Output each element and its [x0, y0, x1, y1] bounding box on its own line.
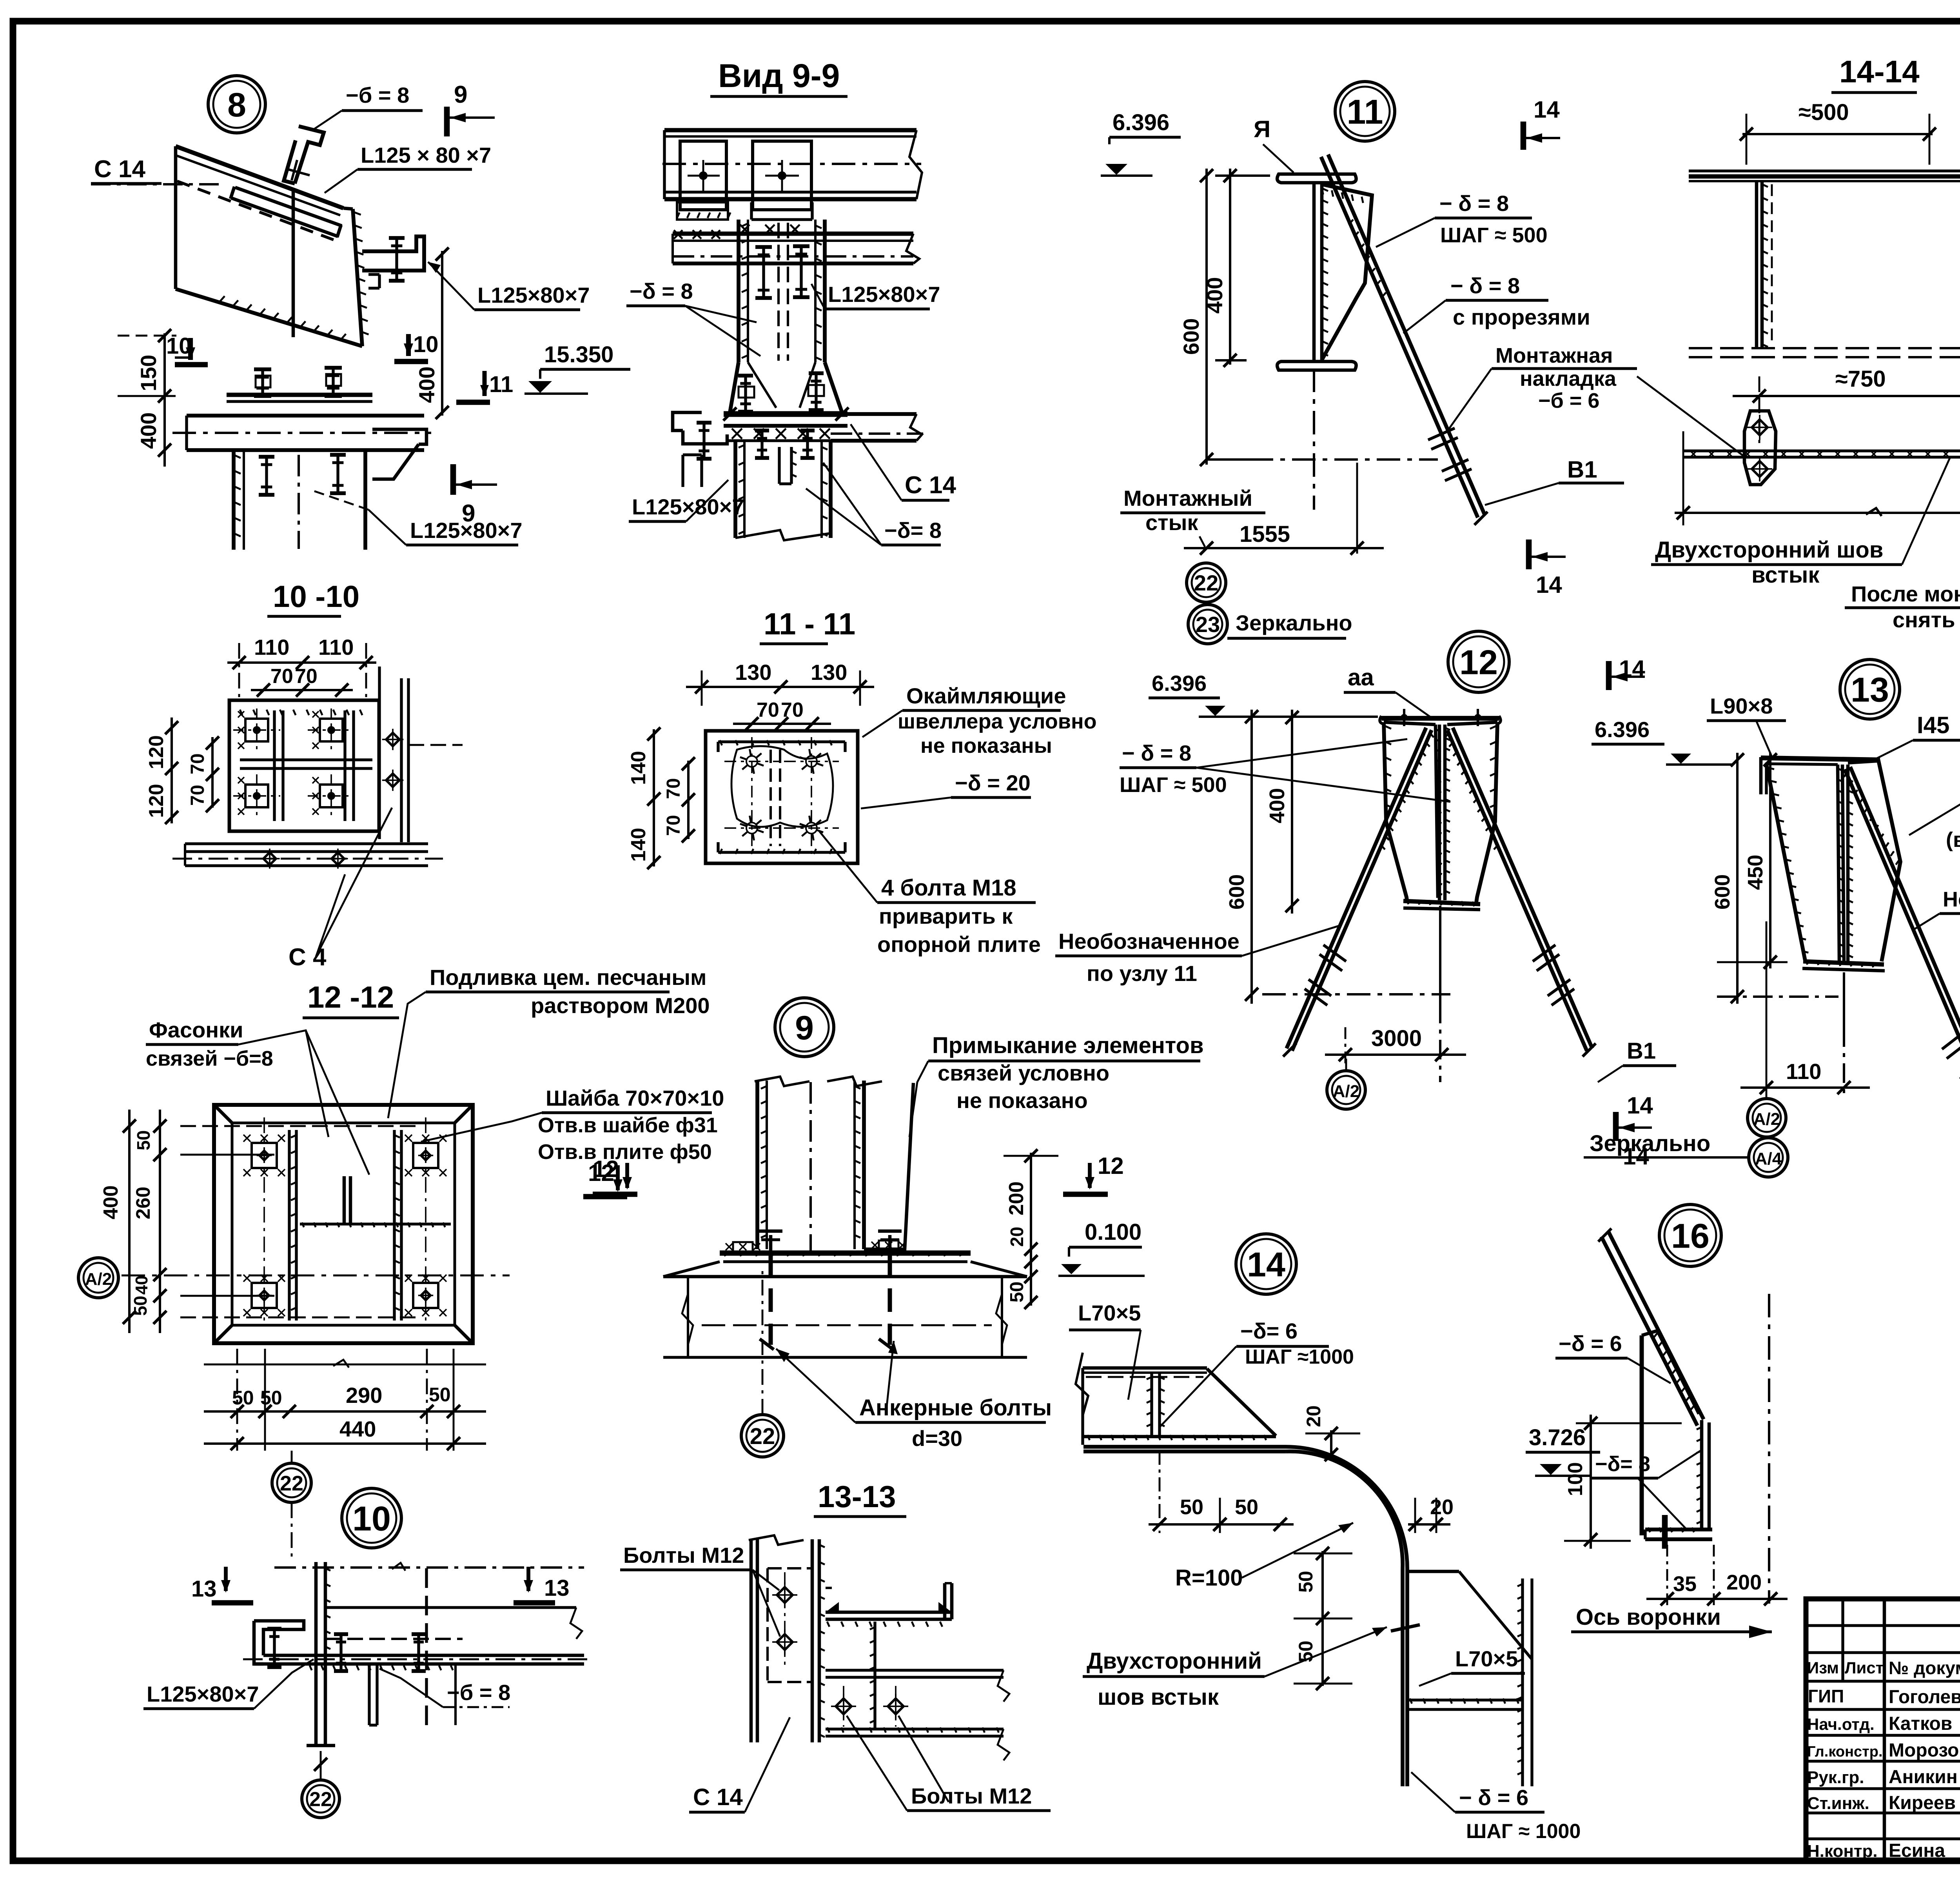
node 8 roof beam top edge [176, 146, 343, 208]
node 16 bottom flange [1645, 1528, 1712, 1531]
svg-text:20: 20 [1303, 1405, 1325, 1427]
svg-text:70: 70 [663, 778, 684, 799]
svg-text:А/2: А/2 [1753, 1110, 1780, 1129]
node 13 axis bubbles A2 A4 [1748, 1099, 1786, 1137]
section 14-14 stiffeners [1755, 181, 1759, 348]
svg-text:450: 450 [1744, 855, 1767, 890]
node 8 lower right bracket [372, 429, 426, 444]
svg-text:14: 14 [1247, 1245, 1285, 1284]
svg-text:В1: В1 [1627, 1038, 1656, 1064]
node 13 left dims 450 600 [1736, 753, 1739, 1004]
svg-text:−б = 8: −б = 8 [447, 1680, 510, 1705]
node 12 right brace [1447, 730, 1587, 1051]
view 9-9 lower column [733, 441, 737, 538]
node 9 grout and foundation top [663, 1262, 720, 1277]
svg-text:150: 150 [136, 355, 161, 391]
svg-text:600: 600 [1711, 874, 1734, 910]
svg-text:120: 120 [145, 784, 168, 818]
svg-text:100: 100 [1564, 1462, 1587, 1496]
section 13-13 dashed box and bolts [766, 1568, 769, 1682]
svg-text:50: 50 [1295, 1571, 1317, 1593]
svg-text:600: 600 [1225, 874, 1249, 910]
svg-text:6.396: 6.396 [1152, 671, 1207, 696]
svg-text:3000: 3000 [1371, 1026, 1422, 1051]
svg-text:Вид 9-9: Вид 9-9 [718, 57, 840, 94]
section 14-14 top chord [1689, 169, 1960, 172]
svg-text:14: 14 [1536, 572, 1562, 598]
svg-text:70: 70 [295, 665, 318, 688]
node 16 right edge vertical [1700, 1420, 1704, 1529]
node 12 section mark 14 bottom [1613, 1112, 1619, 1141]
view 9-9 base plate [724, 411, 848, 417]
svg-text:11 - 11: 11 - 11 [764, 607, 855, 641]
svg-text:− δ = 8: − δ = 8 [1122, 741, 1191, 765]
svg-text:10: 10 [352, 1499, 391, 1538]
svg-text:−δ= 6: −δ= 6 [1240, 1319, 1298, 1343]
svg-text:Гл.констр.: Гл.констр. [1807, 1744, 1883, 1760]
svg-text:по узлу 11: по узлу 11 [1087, 961, 1197, 986]
svg-text:опорной плите: опорной плите [877, 932, 1041, 957]
node 11 section mark 14 bottom [1526, 539, 1532, 569]
section 12-12 inner channels [288, 1130, 290, 1321]
section 10-10 plate [229, 700, 379, 831]
node 8 section mark 10 right [406, 334, 411, 356]
svg-text:35: 35 [1673, 1572, 1697, 1596]
svg-text:50: 50 [133, 1130, 154, 1150]
node 11 I-beam web and bottom flange [1312, 183, 1316, 361]
node 16 bubble [1659, 1204, 1721, 1266]
svg-text:L70×5: L70×5 [1455, 1646, 1518, 1671]
svg-text:Ось воронки: Ось воронки [1576, 1604, 1721, 1630]
title block outer frame [1806, 1599, 1960, 1862]
svg-text:70: 70 [663, 815, 684, 836]
svg-text:70: 70 [270, 665, 293, 688]
view 9-9 base taper [730, 362, 739, 412]
section 11-11 left dims 140 70 70 140 [653, 729, 655, 866]
section 11-11 plate [706, 731, 858, 863]
node 10 vertical post [314, 1562, 318, 1746]
svg-text:70: 70 [757, 699, 779, 721]
section 10-10 right channel [378, 667, 381, 839]
node 14 bend arc [1286, 1447, 1407, 1568]
section 13-13 right beam mid [826, 1669, 1004, 1671]
svg-text:накладка: накладка [1520, 367, 1617, 391]
svg-text:400: 400 [1265, 788, 1289, 823]
svg-text:110: 110 [1786, 1059, 1821, 1084]
svg-text:L70×5: L70×5 [1078, 1301, 1141, 1325]
node 14 sloped cut [1207, 1369, 1276, 1436]
node 13 diagonal brace [1845, 769, 1960, 1125]
svg-text:12 -12: 12 -12 [307, 980, 394, 1014]
svg-text:Есина: Есина [1889, 1840, 1945, 1861]
section 13-13 mid web [873, 1622, 876, 1729]
svg-text:14: 14 [1534, 96, 1560, 123]
node 8 right channel C14 bracket [362, 236, 424, 271]
svg-text:200: 200 [1726, 1571, 1762, 1594]
node 12 funnel left plate [1384, 722, 1407, 903]
svg-text:−δ = 6: −δ = 6 [1559, 1331, 1622, 1356]
section 13-13 right beam top [826, 1587, 832, 1589]
svg-text:10 -10: 10 -10 [273, 579, 359, 614]
svg-text:Монтажный: Монтажный [1123, 486, 1252, 510]
svg-text:Шайба 70×70×10: Шайба 70×70×10 [546, 1086, 724, 1110]
view 9-9 anchor bolts at base [744, 376, 747, 412]
svg-text:70: 70 [187, 785, 208, 806]
svg-text:110: 110 [254, 635, 289, 659]
view 9-9 top beam [664, 128, 916, 133]
svg-text:130: 130 [735, 660, 771, 685]
view 9-9 stub plates under [778, 447, 780, 484]
svg-text:Окаймляющие: Окаймляющие [906, 683, 1066, 708]
node 10 ref bubble 22 top [272, 1463, 311, 1502]
svg-text:Примыкание элементов: Примыкание элементов [932, 1033, 1204, 1058]
svg-text:11: 11 [1347, 93, 1383, 131]
section 13-13 left channel [750, 1539, 753, 1742]
node 11 diagonal brace B1 [1321, 157, 1478, 518]
section 14-14 bottom dashed chords [1689, 347, 1960, 349]
svg-text:аа: аа [1348, 664, 1374, 690]
svg-text:связей −б=8: связей −б=8 [146, 1047, 273, 1070]
svg-text:Болты М12: Болты М12 [911, 1784, 1032, 1808]
svg-text:L125×80×7: L125×80×7 [477, 283, 590, 307]
node 8 web panel [174, 146, 178, 289]
node 8 angle on slope [235, 187, 342, 226]
node 16 diagonal member [1609, 1232, 1704, 1419]
node 11 slotted plate [1322, 184, 1372, 360]
node 9 base plate [720, 1250, 971, 1255]
node 10 horizontal beam [263, 1654, 584, 1657]
svg-text:Двухсторонний шов: Двухсторонний шов [1655, 537, 1883, 563]
svg-text:−б = 6: −б = 6 [1538, 389, 1599, 412]
section 13-13 bolts lower [836, 1698, 851, 1714]
svg-text:− δ = 8: − δ = 8 [1450, 273, 1520, 298]
svg-text:После монтажа: После монтажа [1851, 581, 1960, 606]
node 9 column [755, 1081, 759, 1249]
svg-text:L125 × 80 ×7: L125 × 80 ×7 [361, 143, 491, 167]
svg-text:23: 23 [1196, 612, 1220, 637]
node 10 bubble [342, 1488, 401, 1548]
svg-text:Подливка цем. песчаным: Подливка цем. песчаным [430, 965, 706, 990]
view 9-9 right beam lower [831, 412, 916, 416]
svg-text:− δ = 6: − δ = 6 [1459, 1785, 1528, 1810]
svg-text:швеллера условно: швеллера условно [898, 710, 1097, 733]
svg-text:8: 8 [227, 86, 246, 124]
svg-text:Изм: Изм [1807, 1658, 1839, 1677]
svg-text:(в пределах: (в пределах [1946, 828, 1960, 852]
svg-text:50: 50 [429, 1384, 451, 1406]
svg-text:С 14: С 14 [693, 1784, 743, 1810]
svg-text:L125×80×7: L125×80×7 [147, 1682, 259, 1706]
view 9-9 left channel hook [673, 412, 702, 430]
node 11 dim 1555 [1200, 541, 1213, 555]
section 10-10 beam below [185, 842, 428, 845]
section 12-12 center stiffener [343, 1176, 346, 1224]
node 8 beam band [187, 414, 424, 418]
node 13 plate left part [1766, 764, 1805, 961]
svg-text:16: 16 [1671, 1217, 1710, 1255]
node 14 lower channel [1407, 1570, 1459, 1573]
svg-text:приварить к: приварить к [879, 904, 1013, 928]
svg-text:L125×80×7: L125×80×7 [632, 494, 744, 519]
node 14 bubble [1236, 1234, 1296, 1294]
node 10 bolts [273, 1629, 276, 1667]
node 8 lower beam flange [227, 393, 372, 397]
section 10-10 left dims 120 120 70 70 [171, 717, 173, 823]
svg-text:Фасонки: Фасонки [149, 1017, 243, 1042]
svg-text:ШАГ ≈1000: ШАГ ≈1000 [1245, 1346, 1354, 1368]
node 9 bubble [775, 998, 834, 1057]
svg-text:А/4: А/4 [1755, 1149, 1782, 1168]
svg-text:Отв.в плите ф50: Отв.в плите ф50 [538, 1140, 712, 1164]
svg-text:20: 20 [1430, 1495, 1454, 1519]
node 8 column below [232, 450, 236, 550]
svg-text:Болты М12: Болты М12 [623, 1543, 744, 1568]
node 12 left dims 600 400 [1250, 710, 1253, 1004]
svg-text:50: 50 [232, 1387, 254, 1409]
svg-text:ШАГ ≈ 500: ШАГ ≈ 500 [1120, 773, 1227, 797]
section 11-11 bolts with rays [746, 756, 757, 767]
view 9-9 washer plates [680, 141, 726, 210]
svg-text:1555: 1555 [1240, 521, 1290, 547]
svg-text:Необозначенное: Необозначенное [1943, 888, 1960, 911]
node 10 left channel [254, 1621, 263, 1664]
node 12 funnel right plate [1476, 722, 1497, 903]
svg-text:260: 260 [132, 1187, 154, 1219]
svg-text:≈500: ≈500 [1798, 100, 1849, 125]
svg-text:13: 13 [1851, 670, 1889, 709]
svg-text:22: 22 [750, 1424, 775, 1449]
svg-text:Отв.в шайбе ф31: Отв.в шайбе ф31 [538, 1113, 718, 1137]
svg-text:6.396: 6.396 [1112, 110, 1169, 135]
view 9-9 bolts through beam [762, 247, 765, 298]
svg-text:6.396: 6.396 [1595, 717, 1650, 742]
svg-text:140: 140 [627, 828, 650, 862]
svg-text:400: 400 [1202, 277, 1227, 314]
svg-text:d=30: d=30 [912, 1426, 962, 1451]
node 9 ref bubble 22 [741, 1415, 784, 1457]
svg-text:Киреев: Киреев [1889, 1793, 1956, 1813]
section 12-12 axis bubble A2 [78, 1258, 118, 1298]
section 12-12 centerlines [122, 1275, 510, 1277]
node 13 plate right part [1848, 761, 1900, 961]
node 8 top channel brace [295, 126, 324, 183]
svg-text:Н.контр.: Н.контр. [1807, 1842, 1878, 1861]
svg-text:Катков: Катков [1889, 1713, 1952, 1734]
node 11 bubble [1335, 82, 1395, 141]
svg-text:Нач.отд.: Нач.отд. [1807, 1715, 1875, 1733]
svg-text:13: 13 [191, 1576, 217, 1602]
svg-text:L90×8: L90×8 [1710, 694, 1773, 718]
node 12 funnel web [1438, 725, 1441, 900]
svg-text:Рук.гр.: Рук.гр. [1807, 1768, 1864, 1787]
svg-text:−б = 8: −б = 8 [346, 83, 409, 107]
svg-text:≈750: ≈750 [1835, 366, 1886, 392]
node 22 ref bubble [1187, 563, 1226, 602]
svg-text:110: 110 [318, 635, 354, 659]
svg-text:снять: снять [1893, 607, 1955, 632]
svg-text:0.100: 0.100 [1085, 1219, 1142, 1245]
svg-text:20: 20 [1007, 1227, 1027, 1247]
svg-text:22: 22 [280, 1471, 303, 1495]
svg-text:440: 440 [339, 1417, 376, 1441]
svg-text:4 болта М18: 4 болта М18 [881, 875, 1016, 901]
svg-text:В1: В1 [1567, 456, 1597, 483]
node 14 vertical plate [1401, 1568, 1405, 1786]
node 14 upper channel [1083, 1366, 1207, 1370]
node 12 funnel top flange [1381, 716, 1499, 721]
node 16 bolt [1662, 1515, 1668, 1549]
svg-text:22: 22 [309, 1788, 332, 1811]
svg-text:14-14: 14-14 [1839, 54, 1920, 89]
node 9 base washers [733, 1242, 753, 1252]
node 9 anchor bolts [769, 1235, 773, 1253]
node 9 dims right [1030, 1153, 1032, 1266]
svg-text:Двухсторонний: Двухсторонний [1087, 1648, 1262, 1674]
section 14-14 bottom chord weave [1683, 449, 1960, 452]
node 12 top bolts [1401, 714, 1408, 721]
svg-text:200: 200 [1005, 1181, 1028, 1215]
node 9 gusset right [864, 1083, 913, 1249]
svg-text:12: 12 [593, 1156, 619, 1182]
svg-text:120: 120 [145, 735, 168, 769]
svg-text:раствором М200: раствором М200 [531, 993, 710, 1018]
svg-text:22: 22 [1194, 570, 1218, 595]
svg-text:400: 400 [136, 412, 161, 449]
svg-text:13: 13 [544, 1575, 570, 1601]
svg-text:А/2: А/2 [85, 1270, 112, 1289]
node 12 axis bubble A2 [1327, 1071, 1365, 1109]
svg-text:ШАГ ≈ 1000: ШАГ ≈ 1000 [1466, 1820, 1581, 1843]
svg-text:А/2: А/2 [1333, 1082, 1359, 1101]
node 8 bolt on bracket [395, 238, 398, 281]
svg-text:L125×80×7: L125×80×7 [828, 282, 940, 307]
svg-text:связей условно: связей условно [938, 1061, 1109, 1085]
svg-text:130: 130 [811, 660, 847, 685]
node 10 top dashed line [274, 1566, 584, 1569]
node 11 dim 600-400 [1270, 173, 1270, 177]
node 12 bubble [1448, 631, 1509, 692]
node 11 axis line [1207, 458, 1438, 461]
node 9 dim 50 [1030, 1266, 1032, 1306]
svg-text:400: 400 [100, 1185, 122, 1219]
svg-text:140: 140 [627, 751, 650, 785]
svg-text:шов встык: шов встык [1098, 1684, 1219, 1710]
section 14-14 lower dim line [1675, 512, 1960, 514]
svg-text:600: 600 [1179, 318, 1203, 355]
svg-text:встык: встык [1751, 562, 1820, 588]
node 10 ref bubble 22 bottom [302, 1780, 339, 1818]
svg-text:Зеркально: Зеркально [1590, 1131, 1710, 1156]
svg-text:40: 40 [132, 1275, 151, 1295]
svg-text:Я: Я [1254, 116, 1270, 142]
svg-text:13-13: 13-13 [818, 1479, 896, 1514]
view 9-9 plates under flange [677, 202, 728, 220]
node 12 centerline [1439, 906, 1441, 1004]
svg-text:I45: I45 [1917, 712, 1949, 738]
node 14 bolt on plate [1391, 1625, 1420, 1631]
title block left table verticals [1841, 1599, 1844, 1681]
view 9-9 column section [737, 220, 740, 362]
svg-text:14: 14 [1627, 1092, 1653, 1119]
svg-text:−δ= 8: −δ= 8 [884, 518, 942, 543]
node 8 bolts above beam [261, 369, 264, 396]
node 9 foundation body [687, 1277, 689, 1357]
svg-text:12: 12 [1459, 643, 1498, 682]
svg-text:С 14: С 14 [905, 472, 956, 499]
node 8 section mark 10 left [188, 338, 193, 360]
node 8 bolts in column [265, 457, 268, 495]
section 12-12 bottom dims [204, 1364, 486, 1366]
svg-text:11: 11 [489, 372, 513, 397]
svg-text:с прорезями: с прорезями [1453, 305, 1590, 329]
node 10 right dashed vertical [425, 1568, 428, 1729]
node 13 plate web [1842, 765, 1844, 964]
node 14 bent plate top [1083, 1445, 1286, 1449]
section 11-11 top bottom channel dashes [718, 740, 845, 743]
section 11-11 cloud outline [731, 746, 833, 827]
svg-text:70: 70 [781, 699, 804, 721]
svg-text:ГИП: ГИП [1808, 1686, 1844, 1706]
svg-text:Монтажная: Монтажная [1495, 344, 1613, 367]
section 10-10 washers [245, 719, 268, 741]
svg-text:R=100: R=100 [1175, 1565, 1243, 1591]
node 8 bubble [208, 76, 265, 133]
node 11 brace hatch [1348, 220, 1353, 225]
svg-text:не показаны: не показаны [920, 734, 1052, 757]
node 12 left brace [1292, 730, 1432, 1051]
svg-text:400: 400 [414, 367, 439, 403]
svg-text:9: 9 [795, 1009, 814, 1047]
view 9-9 bolts lower [760, 430, 763, 458]
node 8 dim 150-400 left [163, 333, 166, 467]
svg-text:ШАГ ≈ 500: ШАГ ≈ 500 [1440, 223, 1548, 247]
svg-text:50: 50 [1007, 1282, 1027, 1302]
view 9-9 dim 600-400 right [1205, 169, 1208, 465]
svg-text:− δ = 8: − δ = 8 [1439, 191, 1509, 216]
svg-text:С 14: С 14 [94, 156, 145, 183]
svg-text:Гоголев: Гоголев [1889, 1687, 1960, 1707]
svg-text:Необозначенное: Необозначенное [1058, 929, 1240, 954]
svg-text:50: 50 [1180, 1495, 1203, 1519]
svg-text:50: 50 [130, 1296, 151, 1316]
svg-text:3.726: 3.726 [1529, 1425, 1586, 1450]
node 10 lower stubs [368, 1666, 370, 1725]
section 10-10 inner webs [273, 710, 276, 821]
section 12-12 washers with X [252, 1143, 277, 1168]
svg-text:12: 12 [1098, 1153, 1124, 1179]
svg-text:−δ= 8: −δ= 8 [1595, 1452, 1650, 1476]
section 14-14 left gusset rhomb [1744, 411, 1776, 485]
svg-text:Морозова: Морозова [1889, 1740, 1960, 1761]
svg-text:не показано: не показано [956, 1088, 1088, 1113]
node 10 mid rail [325, 1606, 576, 1609]
svg-text:290: 290 [346, 1383, 382, 1408]
svg-text:9: 9 [462, 500, 475, 527]
svg-text:Ст.инж.: Ст.инж. [1807, 1794, 1869, 1813]
svg-text:50: 50 [260, 1387, 282, 1409]
svg-text:Аникин: Аникин [1889, 1767, 1958, 1787]
node 16 plate [1640, 1335, 1644, 1535]
section 12-12 left dims [128, 1110, 131, 1333]
svg-text:15.350: 15.350 [544, 342, 613, 367]
node 13 centerline [1843, 972, 1845, 1027]
svg-text:Зеркально: Зеркально [1236, 610, 1352, 635]
node 13 plate top flange [1761, 758, 1880, 760]
svg-text:70: 70 [187, 754, 208, 774]
node 13 plate bottom flange [1803, 961, 1884, 965]
svg-text:Лист: Лист [1845, 1658, 1884, 1677]
node 12 funnel bottom flange [1403, 901, 1480, 904]
